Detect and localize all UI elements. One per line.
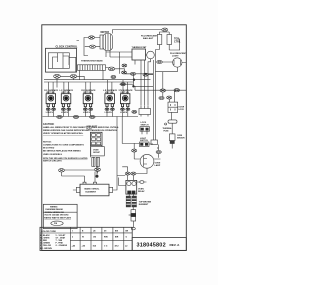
- svg-text:THERMOSTAT: THERMOSTAT: [132, 46, 148, 49]
- svg-text:USED ON MODELS: USED ON MODELS: [43, 154, 63, 156]
- svg-text:CONNECTIONS TO OVEN COMPONENTS: CONNECTIONS TO OVEN COMPONENTS: [43, 145, 84, 147]
- svg-text:LOCK: LOCK: [179, 109, 185, 111]
- svg-text:BAKE / BROIL: BAKE / BROIL: [85, 188, 100, 191]
- svg-text:PLUG: PLUG: [87, 128, 93, 130]
- svg-text:VOLTS 120/240 3W 60HZ: VOLTS 120/240 3W 60HZ: [44, 214, 69, 217]
- svg-text:CLOCK CONTROL: CLOCK CONTROL: [56, 45, 78, 48]
- svg-text:LIGHT: LIGHT: [172, 56, 179, 58]
- svg-text:LAMP: LAMP: [155, 164, 161, 167]
- svg-text:COLOR CODE: COLOR CODE: [41, 231, 56, 233]
- svg-text:1: 1: [72, 231, 73, 233]
- svg-text:LABEL ALL WIRES PRIOR TO DISCO: LABEL ALL WIRES PRIOR TO DISCONNECTION W…: [43, 126, 119, 129]
- svg-text:P/N: P/N: [54, 223, 58, 225]
- svg-text:318045802: 318045802: [137, 242, 166, 248]
- svg-text:L1 H2 N: L1 H2 N: [61, 112, 69, 114]
- svg-text:104: 104: [93, 244, 97, 247]
- svg-text:B: B: [82, 231, 84, 233]
- svg-text:RELAY: RELAY: [138, 190, 145, 193]
- svg-text:WITH THE 3RD AND 5TH SURFACE L: WITH THE 3RD AND 5TH SURFACE LIGHTED: [43, 157, 88, 160]
- svg-text:MODEL SERIES 318: MODEL SERIES 318: [45, 212, 65, 214]
- svg-text:LB: LB: [93, 231, 96, 233]
- svg-text:CM: CM: [93, 237, 96, 239]
- svg-text:MOTOR: MOTOR: [101, 32, 110, 34]
- svg-text:UNIT SW: UNIT SW: [83, 92, 92, 94]
- svg-text:+40: +40: [72, 244, 76, 247]
- svg-text:BR: BR: [126, 231, 129, 233]
- svg-text:G: G: [126, 237, 128, 239]
- svg-text:1 G: 1 G: [104, 245, 108, 247]
- svg-text:L2: L2: [125, 245, 128, 247]
- svg-text:IN DOTTED: IN DOTTED: [43, 147, 55, 149]
- svg-text:O - ORANGE: O - ORANGE: [56, 244, 68, 247]
- svg-text:FUSE: FUSE: [164, 131, 170, 133]
- svg-text:B - BLACK: B - BLACK: [40, 234, 50, 237]
- svg-text:REV. A: REV. A: [170, 243, 181, 247]
- svg-text:3/12: 3/12: [115, 245, 120, 247]
- svg-text:UNIT SW: UNIT SW: [120, 92, 129, 94]
- svg-text:L1 H2 N: L1 H2 N: [105, 112, 113, 114]
- svg-text:D/I: D/I: [104, 231, 107, 233]
- svg-text:BR - BROWN: BR - BROWN: [40, 248, 52, 250]
- svg-text:2: 2: [72, 237, 73, 239]
- svg-text:GROUP: GROUP: [93, 152, 101, 154]
- svg-text:ELEMENT: ELEMENT: [139, 204, 149, 206]
- svg-text:B/N: B/N: [115, 231, 119, 233]
- svg-text:BALLAST: BALLAST: [143, 37, 154, 40]
- svg-text:R/W: R/W: [104, 237, 108, 239]
- svg-text:GY - GRAY: GY - GRAY: [56, 236, 66, 239]
- svg-text:L1 H2 N: L1 H2 N: [83, 112, 91, 114]
- svg-text:UNIT SW: UNIT SW: [61, 92, 70, 94]
- svg-text:BE SERVICE REPLACED PER WIRING: BE SERVICE REPLACED PER WIRING: [43, 150, 81, 153]
- svg-text:SENSOR: SENSOR: [177, 137, 185, 139]
- svg-text:+90: +90: [82, 245, 86, 247]
- svg-text:T - TAN: T - TAN: [56, 239, 63, 242]
- svg-text:ELEMENT: ELEMENT: [86, 191, 97, 193]
- svg-text:UNIT SW: UNIT SW: [46, 92, 55, 94]
- svg-text:L1 H2 N: L1 H2 N: [46, 112, 54, 114]
- svg-text:SWITCH: SWITCH: [141, 125, 149, 127]
- svg-text:L1 H2 N: L1 H2 N: [120, 112, 128, 114]
- svg-text:CTRL: CTRL: [174, 40, 181, 43]
- svg-text:VERIFY OPERATION AFTER SERVICI: VERIFY OPERATION AFTER SERVICING.: [43, 132, 84, 135]
- svg-text:RATED WATTS SEE PLATE: RATED WATTS SEE PLATE: [44, 216, 71, 219]
- svg-text:THERMOSTAT BAKE: THERMOSTAT BAKE: [81, 60, 103, 63]
- svg-text:CAUTION:: CAUTION:: [43, 123, 54, 126]
- svg-text:WIRING ERRORS CAN CAUSE IMPROP: WIRING ERRORS CAN CAUSE IMPROPER AND DAN…: [43, 129, 118, 132]
- svg-text:DIAGRAM RANGE: DIAGRAM RANGE: [46, 208, 64, 211]
- svg-text:SWITCH CIRCUITS: SWITCH CIRCUITS: [43, 161, 62, 163]
- svg-text:UNIT SW: UNIT SW: [105, 92, 114, 94]
- svg-text:B/R: B/R: [115, 237, 119, 239]
- svg-text:W: W: [82, 237, 84, 239]
- svg-text:NOTICE:: NOTICE:: [43, 141, 52, 143]
- svg-text:SWITCH: SWITCH: [140, 140, 148, 142]
